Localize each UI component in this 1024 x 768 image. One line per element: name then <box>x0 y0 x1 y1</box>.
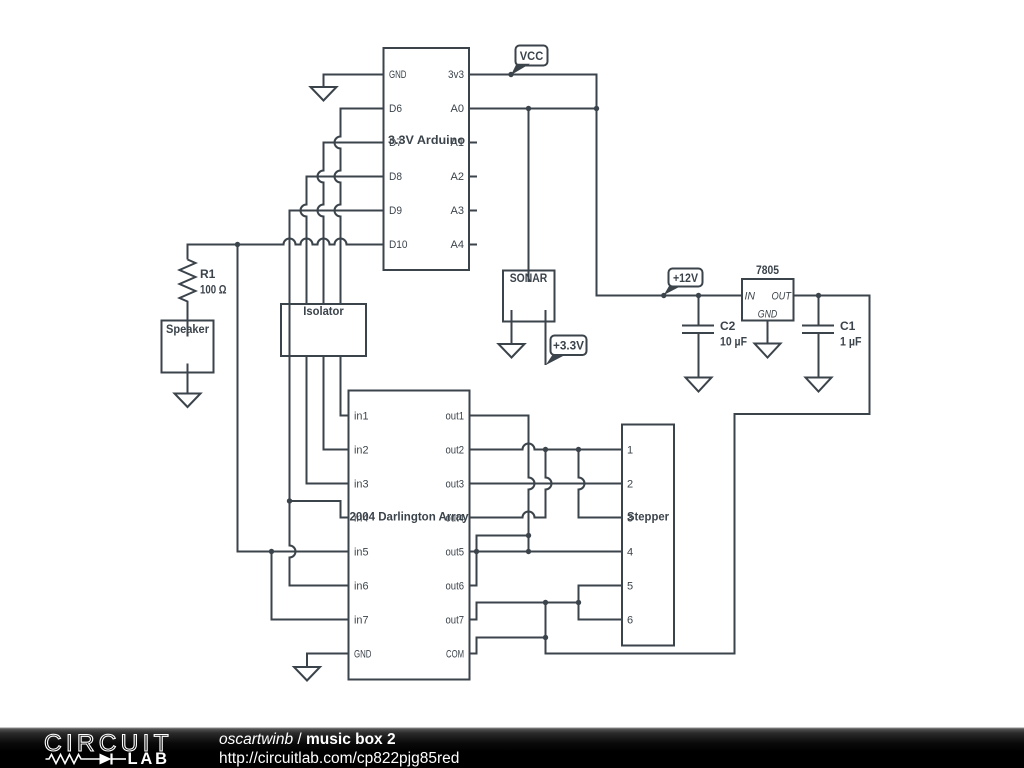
svg-text:SONAR: SONAR <box>510 271 548 285</box>
svg-text:COM: COM <box>446 649 464 661</box>
svg-text:Stepper: Stepper <box>627 510 669 524</box>
svg-text:GND: GND <box>758 309 778 321</box>
svg-text:7805: 7805 <box>756 263 779 277</box>
svg-text:3v3: 3v3 <box>448 69 464 81</box>
svg-text:+12V: +12V <box>673 271 698 285</box>
svg-text:2: 2 <box>627 479 633 491</box>
svg-text:1 µF: 1 µF <box>840 335 862 349</box>
svg-text:VCC: VCC <box>520 49 544 63</box>
svg-text:out2: out2 <box>446 445 465 457</box>
svg-text:Speaker: Speaker <box>166 322 209 336</box>
svg-text:10 µF: 10 µF <box>720 335 747 349</box>
svg-text:out5: out5 <box>446 547 465 559</box>
svg-text:IN: IN <box>745 291 756 303</box>
svg-text:out1: out1 <box>446 411 465 423</box>
svg-text:in2: in2 <box>354 445 369 457</box>
svg-text:5: 5 <box>627 581 633 593</box>
svg-text:D10: D10 <box>389 239 408 251</box>
svg-text:2004 Darlington Array: 2004 Darlington Array <box>350 510 469 524</box>
svg-text:1: 1 <box>627 445 633 457</box>
svg-text:Isolator: Isolator <box>303 304 344 318</box>
svg-text:in6: in6 <box>354 581 369 593</box>
svg-text:in3: in3 <box>354 479 369 491</box>
svg-text:D6: D6 <box>389 103 402 115</box>
svg-text:D9: D9 <box>389 205 402 217</box>
svg-text:4: 4 <box>627 547 633 559</box>
svg-text:out7: out7 <box>446 615 465 627</box>
svg-text:in5: in5 <box>354 547 369 559</box>
svg-text:6: 6 <box>627 615 633 627</box>
svg-text:out3: out3 <box>446 479 465 491</box>
svg-text:100 Ω: 100 Ω <box>200 283 227 297</box>
svg-text:GND: GND <box>389 69 407 81</box>
svg-text:oscartwinb / music box 2: oscartwinb / music box 2 <box>219 731 396 748</box>
svg-text:C1: C1 <box>840 319 856 333</box>
svg-text:R1: R1 <box>200 267 216 281</box>
svg-text:A0: A0 <box>451 103 465 115</box>
svg-text:out6: out6 <box>446 581 465 593</box>
svg-text:A3: A3 <box>451 205 465 217</box>
svg-text:GND: GND <box>354 649 372 661</box>
svg-text:http://circuitlab.com/cp822pjg: http://circuitlab.com/cp822pjg85red <box>219 750 459 767</box>
svg-text:LAB: LAB <box>128 750 170 768</box>
svg-text:+3.3V: +3.3V <box>553 339 584 353</box>
svg-text:A2: A2 <box>451 171 465 183</box>
svg-text:in7: in7 <box>354 615 369 627</box>
svg-text:OUT: OUT <box>772 291 793 303</box>
svg-text:D8: D8 <box>389 171 402 183</box>
svg-text:3.3V Arduino: 3.3V Arduino <box>388 133 465 147</box>
svg-text:A4: A4 <box>451 239 465 251</box>
svg-text:in1: in1 <box>354 411 369 423</box>
svg-text:C2: C2 <box>720 319 736 333</box>
